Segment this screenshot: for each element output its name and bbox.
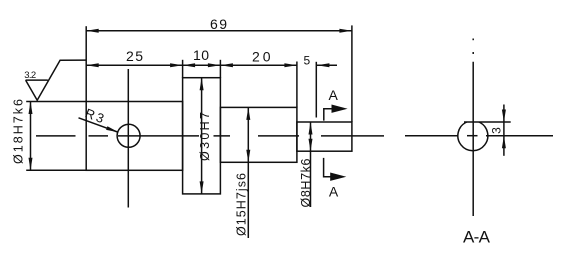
A-A vertical centerline xyxy=(472,39,474,217)
svg-text:Ø30H7: Ø30H7 xyxy=(198,112,212,161)
svg-text:20: 20 xyxy=(252,49,271,65)
69 left arrow xyxy=(86,29,99,33)
svg-text:5: 5 xyxy=(303,53,310,67)
A-A section circle with flat xyxy=(458,122,488,151)
5 right outside arrow xyxy=(317,63,330,67)
svg-text:Ø8H7k6: Ø8H7k6 xyxy=(299,158,313,207)
section flag arrow bottom xyxy=(330,173,346,181)
dim Ø15 bottom arrow xyxy=(246,150,250,163)
extension line section1/2 boundary up xyxy=(182,60,184,78)
section 2 shaft Ø30 outline xyxy=(183,78,221,194)
dim Ø18 top arrow xyxy=(29,102,33,115)
extension line section3 right up xyxy=(296,62,298,108)
25 left arrow xyxy=(86,63,99,67)
extension lines Ø18 dim left xyxy=(26,101,86,103)
svg-text:3.2: 3.2 xyxy=(24,70,36,81)
section 1 shaft Ø18 outline xyxy=(86,102,182,171)
surface finish symbol xyxy=(26,60,86,100)
10 right arrow xyxy=(208,63,221,67)
dim Ø8 bottom arrow xyxy=(309,139,313,152)
svg-text:A-A: A-A xyxy=(463,227,491,246)
extension line 5-dim right xyxy=(315,62,317,118)
dimension Ø15 vertical line xyxy=(247,107,249,238)
section flag arrow top xyxy=(332,105,348,113)
R3 leader arrow xyxy=(106,126,118,132)
dim Ø18 bottom arrow xyxy=(29,158,33,171)
dim Ø15 top arrow xyxy=(246,107,250,120)
svg-text:Ø15H7js6: Ø15H7js6 xyxy=(235,173,249,236)
dimension Ø30 vertical line xyxy=(201,78,203,194)
extension line top-left (69/25 dims) xyxy=(85,26,87,101)
section 3 shaft Ø15 outline xyxy=(220,107,297,162)
dim Ø30 bottom arrow xyxy=(200,181,204,194)
R3 leader line xyxy=(79,118,118,132)
dimension 10 line xyxy=(183,64,221,66)
centerline main view xyxy=(36,135,384,137)
hole vertical centerline xyxy=(127,69,129,208)
dimension 69 line xyxy=(86,30,352,32)
section cut flag top xyxy=(324,109,334,121)
dim Ø8 top arrow xyxy=(309,122,313,135)
svg-text:25: 25 xyxy=(126,48,143,64)
dimension 20 line xyxy=(220,64,297,66)
20 left arrow xyxy=(220,63,233,67)
20 right arrow xyxy=(284,63,297,67)
svg-text:A: A xyxy=(329,183,339,199)
arrowheads xyxy=(29,29,506,194)
A-A horizontal centerline xyxy=(405,135,553,137)
svg-text:Ø18H7k6: Ø18H7k6 xyxy=(12,99,26,164)
extension line section2/3 boundary up xyxy=(219,60,221,78)
hole circle R3 xyxy=(117,124,140,147)
section 4 shaft Ø8 outline xyxy=(297,122,352,151)
dim Ø30 top arrow xyxy=(200,78,204,91)
A-A dimension 3 vertical line xyxy=(503,105,505,156)
dim 3 down arrow (tip at flat) xyxy=(502,110,506,123)
25 right arrow xyxy=(170,63,183,67)
svg-text:A: A xyxy=(329,87,339,103)
svg-text:3: 3 xyxy=(490,127,504,134)
dimension Ø18 vertical line xyxy=(30,102,32,171)
dimension Ø8 vertical line xyxy=(310,122,312,207)
dimension 5 outside tail xyxy=(316,64,337,66)
dimension 25 line xyxy=(86,64,182,66)
10 left arrow xyxy=(183,63,196,67)
extension line right end (69 dim) xyxy=(351,25,353,122)
dim 3 up arrow (tip at centerline) xyxy=(502,136,506,149)
69 right arrow xyxy=(339,29,352,33)
svg-text:10: 10 xyxy=(193,47,209,63)
A-A flat line with extension xyxy=(464,121,511,123)
section cut flag bottom xyxy=(324,158,334,177)
svg-text:69: 69 xyxy=(210,16,227,32)
